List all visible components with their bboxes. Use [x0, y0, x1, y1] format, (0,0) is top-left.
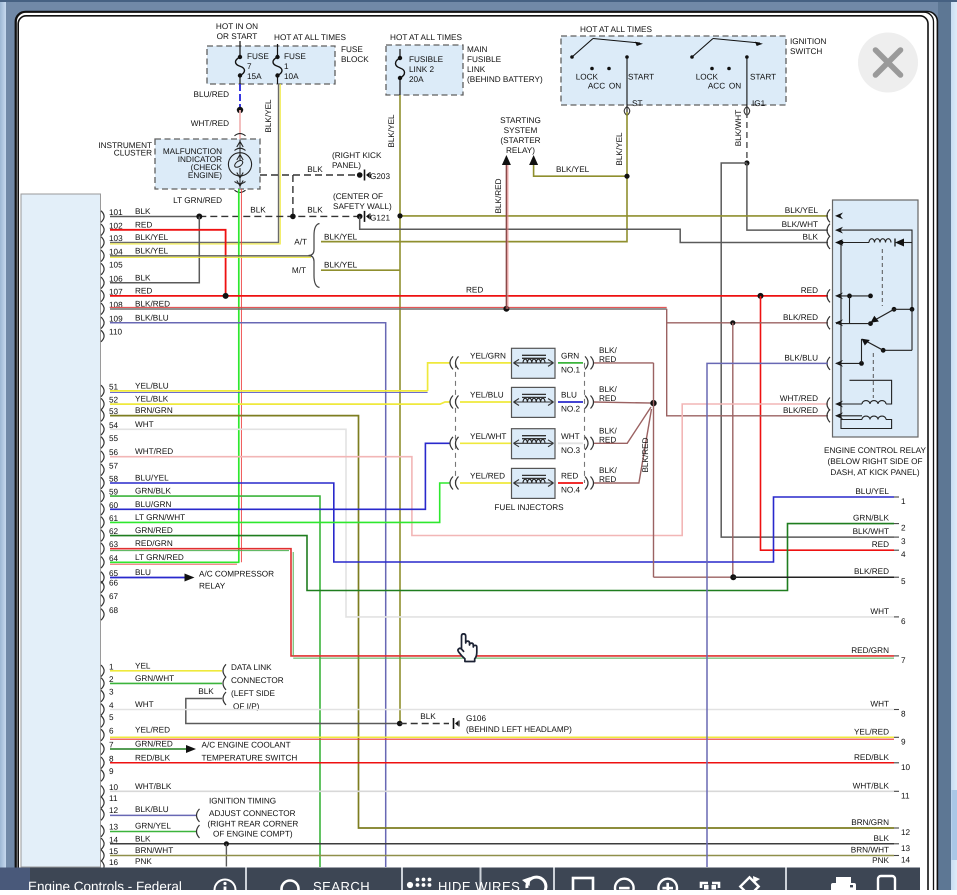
- svg-text:7: 7: [109, 741, 114, 750]
- relay coil diode: [895, 239, 904, 247]
- fuel injector connector dashes: [455, 363, 457, 483]
- wire BLK/RED injector NO.4: [594, 409, 652, 483]
- injector NO.4: [450, 477, 453, 490]
- pin 53 BRN/GRN: [101, 410, 104, 422]
- svg-text:BLK/BLU: BLK/BLU: [135, 805, 169, 814]
- svg-text:BLK/: BLK/: [599, 426, 617, 435]
- svg-text:START: START: [628, 73, 654, 82]
- svg-text:7: 7: [901, 656, 906, 665]
- wire BLK G121 to relay BLK pin: [360, 216, 828, 242]
- wire BLK/RED down to splice 577: [732, 323, 734, 577]
- injector NO.3: [450, 437, 453, 450]
- wire BLK/RED to relay lower pin: [667, 309, 828, 416]
- relay switch upper: [892, 307, 897, 312]
- svg-text:(RIGHT KICK: (RIGHT KICK: [332, 151, 382, 160]
- wire 62 GRN/RED to right pin 2: [110, 524, 894, 591]
- svg-text:67: 67: [109, 592, 119, 601]
- wire 102 RED down to RED bus: [110, 230, 226, 296]
- wire LT GRN/RED (malfunction indicator to pin 64): [238, 189, 240, 562]
- svg-text:RED: RED: [561, 472, 578, 481]
- wire 52 YEL/BLK to injector NO.2: [110, 402, 450, 404]
- pin 57 (nc): [101, 464, 104, 476]
- wire 6 YEL/RED to right pin 9: [110, 736, 894, 738]
- wire BLK/RED injector NO.2: [594, 402, 654, 403]
- svg-text:GRN/BLK: GRN/BLK: [135, 487, 171, 496]
- pin 7 GRN/RED: [101, 743, 104, 755]
- relay pin RED: [827, 289, 830, 302]
- wire 12 BLK/BLU to ignition timing connector: [110, 814, 196, 816]
- pin 105 (nc): [101, 263, 104, 275]
- svg-text:GRN/BLK: GRN/BLK: [853, 514, 889, 523]
- svg-text:FUSIBLE: FUSIBLE: [409, 55, 444, 64]
- svg-text:BLK/RED: BLK/RED: [854, 567, 889, 576]
- svg-text:WHT/RED: WHT/RED: [135, 447, 173, 456]
- svg-text:START: START: [750, 73, 776, 82]
- pin 59 GRN/BLK: [101, 490, 104, 502]
- svg-text:WHT: WHT: [135, 700, 154, 709]
- terminal ST: [626, 57, 628, 112]
- bottom toolbar: [30, 868, 920, 891]
- wire 51 YEL/BLU to injector NO.1: [110, 390, 428, 392]
- svg-text:13: 13: [901, 844, 911, 853]
- svg-text:RED/BLK: RED/BLK: [135, 753, 171, 762]
- wire 8 RED/BLK to right pin 10: [110, 762, 894, 764]
- relay left bus: [841, 243, 862, 420]
- svg-text:16: 16: [109, 858, 119, 867]
- fuse F1 10A: [277, 44, 279, 57]
- svg-text:LT GRN/RED: LT GRN/RED: [173, 196, 222, 205]
- svg-text:58: 58: [109, 475, 119, 484]
- toolbar separator: [401, 868, 403, 891]
- svg-text:BLK: BLK: [135, 273, 151, 282]
- svg-text:BLK/: BLK/: [599, 346, 617, 355]
- svg-text:BLK: BLK: [250, 206, 266, 215]
- relay pin BLK/WHT: [827, 224, 830, 237]
- relay RED row: [836, 295, 871, 297]
- svg-text:9: 9: [901, 737, 906, 746]
- svg-text:HIDE WIRES: HIDE WIRES: [438, 879, 520, 890]
- wire 54 WHT to right pin 6: [110, 429, 894, 617]
- pin 52 YEL/BLK: [101, 398, 104, 410]
- svg-text:FUEL INJECTORS: FUEL INJECTORS: [494, 503, 564, 512]
- splice dot ST branch: [624, 174, 629, 179]
- close button: [858, 33, 918, 93]
- wire BLK/YEL branch to relay: [400, 215, 828, 217]
- pin 60 BLU/GRN: [101, 504, 104, 516]
- svg-text:(CENTER OF: (CENTER OF: [333, 192, 383, 201]
- wire 63 RED/GRN to right pin 7: [110, 549, 894, 656]
- wire BLK/RED to right pin 5: [654, 576, 733, 578]
- svg-text:M/T: M/T: [292, 266, 306, 275]
- svg-text:WHT/RED: WHT/RED: [191, 119, 229, 128]
- pin 67 (nc): [101, 595, 104, 607]
- svg-text:G203: G203: [370, 172, 390, 181]
- svg-text:66: 66: [109, 579, 119, 588]
- svg-text:5: 5: [901, 577, 906, 586]
- pin 9 (nc): [101, 770, 104, 782]
- svg-text:6: 6: [901, 617, 906, 626]
- toolbar zoom-in icon: [658, 879, 677, 895]
- svg-text:BLK/YEL: BLK/YEL: [785, 206, 819, 215]
- wire 59 GRN/BLK down page: [110, 496, 320, 867]
- svg-text:BLK/WHT: BLK/WHT: [782, 220, 818, 229]
- pin 13 GRN/YEL: [101, 825, 104, 837]
- svg-text:20A: 20A: [409, 75, 424, 84]
- pin 64 LT GRN/RED: [101, 557, 104, 569]
- svg-text:(STARTER: (STARTER: [500, 136, 540, 145]
- svg-text:WHT/BLK: WHT/BLK: [135, 782, 172, 791]
- svg-text:60: 60: [109, 501, 119, 510]
- wire BLK/YEL branch to starter: [534, 165, 627, 176]
- relay pin BLK/RED: [827, 409, 830, 422]
- wire 2 GRN/WHT to data link connector: [110, 682, 222, 684]
- svg-text:YEL/RED: YEL/RED: [854, 727, 889, 736]
- svg-text:IGNITION TIMING: IGNITION TIMING: [209, 797, 276, 806]
- wire BLK/RED up to starter arrow: [505, 165, 507, 309]
- wire 60 BLU/GRN to injector NO.3: [110, 443, 450, 509]
- svg-text:1: 1: [901, 497, 906, 506]
- A/T - M/T brace: [309, 224, 320, 288]
- wire BLK/YEL fusible link trunk: [399, 95, 401, 724]
- svg-text:HOT AT ALL TIMES: HOT AT ALL TIMES: [390, 33, 462, 42]
- pin 66 (nc): [101, 581, 104, 593]
- svg-text:BLK/BLU: BLK/BLU: [135, 313, 169, 322]
- svg-text:RED: RED: [135, 220, 152, 229]
- toolbar print icon: [831, 883, 856, 894]
- svg-text:RED: RED: [135, 286, 152, 295]
- svg-text:103: 103: [109, 234, 123, 243]
- wire BLK from data link connector to G106: [223, 692, 226, 705]
- svg-text:RELAY: RELAY: [199, 582, 226, 591]
- svg-text:BLK: BLK: [198, 687, 214, 696]
- pin 101 BLK: [101, 211, 104, 223]
- pin 1 YEL: [101, 665, 104, 677]
- svg-text:STARTING: STARTING: [500, 116, 541, 125]
- svg-text:109: 109: [109, 314, 123, 323]
- svg-text:BLU/YEL: BLU/YEL: [855, 487, 889, 496]
- wire BLU/RED (fuse7 to splice): [239, 84, 241, 110]
- toolbar stop icon: [573, 878, 593, 895]
- svg-text:15: 15: [109, 847, 119, 856]
- svg-text:RED/BLK: RED/BLK: [854, 753, 890, 762]
- pin 110 (nc): [101, 330, 104, 342]
- svg-text:RED/GRN: RED/GRN: [135, 539, 173, 548]
- wire 4 WHT to right pin 8: [110, 709, 894, 711]
- svg-text:14: 14: [109, 835, 119, 844]
- svg-text:56: 56: [109, 448, 119, 457]
- wire 13 GRN/YEL to ignition timing connector: [110, 831, 196, 833]
- pin 54 WHT: [101, 424, 104, 436]
- svg-text:BRN/GRN: BRN/GRN: [135, 406, 173, 415]
- svg-text:WHT: WHT: [870, 700, 889, 709]
- svg-text:(BELOW RIGHT SIDE OF: (BELOW RIGHT SIDE OF: [828, 457, 923, 466]
- pin 107 RED: [101, 290, 104, 302]
- svg-text:OF ENGINE COMPT): OF ENGINE COMPT): [213, 830, 293, 839]
- svg-text:BLK: BLK: [803, 233, 819, 242]
- injector NO.2: [450, 396, 453, 409]
- svg-text:RELAY): RELAY): [506, 146, 535, 155]
- svg-text:14: 14: [901, 856, 911, 865]
- svg-text:3: 3: [901, 537, 906, 546]
- splice dot IG1: [744, 160, 749, 165]
- svg-text:10: 10: [901, 763, 911, 772]
- relay coil 1: [841, 242, 869, 244]
- pin 55 (nc): [101, 437, 104, 449]
- svg-text:YEL/BLU: YEL/BLU: [470, 391, 504, 400]
- toolbar zoom-out icon: [615, 879, 634, 895]
- svg-text:BLU/RED: BLU/RED: [194, 90, 230, 99]
- svg-text:12: 12: [901, 828, 911, 837]
- svg-text:10A: 10A: [284, 72, 299, 81]
- svg-text:(BEHIND BATTERY): (BEHIND BATTERY): [467, 75, 543, 84]
- svg-text:BRN/GRN: BRN/GRN: [851, 818, 889, 827]
- svg-text:ENGINE): ENGINE): [188, 171, 222, 180]
- svg-text:LOCK: LOCK: [696, 73, 719, 82]
- svg-text:NO.1: NO.1: [561, 365, 581, 374]
- svg-text:ACC: ACC: [708, 82, 725, 91]
- pin 106 BLK: [101, 277, 104, 289]
- relay mechanical links (dashed): [881, 249, 883, 306]
- svg-text:108: 108: [109, 300, 123, 309]
- svg-text:59: 59: [109, 488, 119, 497]
- pin 5 (nc): [101, 716, 104, 728]
- svg-text:BRN/WHT: BRN/WHT: [135, 846, 173, 855]
- svg-text:54: 54: [109, 421, 119, 430]
- svg-text:BLK/YEL: BLK/YEL: [556, 165, 590, 174]
- lamp (check engine bulb): [235, 134, 246, 193]
- svg-text:4: 4: [109, 701, 114, 710]
- pin 51 YEL/BLU: [101, 385, 104, 397]
- svg-text:BLK/YEL: BLK/YEL: [615, 132, 624, 166]
- pin 62 GRN/RED: [101, 530, 104, 542]
- ignition switch box: [561, 36, 786, 105]
- fusible link 2 element: [399, 49, 401, 58]
- svg-text:HOT AT ALL TIMES: HOT AT ALL TIMES: [274, 33, 346, 42]
- svg-text:FUSE: FUSE: [284, 52, 306, 61]
- wire BLK/WHT IG1 dashed: [746, 112, 748, 163]
- svg-text:2: 2: [109, 675, 114, 684]
- svg-text:BLK/RED: BLK/RED: [641, 437, 650, 472]
- wire 10 WHT/BLK to right pin 11: [110, 790, 894, 792]
- svg-text:BLU: BLU: [135, 568, 151, 577]
- svg-text:ON: ON: [729, 82, 741, 91]
- relay pin BLK/YEL: [827, 209, 830, 222]
- svg-text:106: 106: [109, 274, 123, 283]
- wire BLK/RED trunk to splice 577: [653, 363, 655, 577]
- svg-text:DASH, AT KICK PANEL): DASH, AT KICK PANEL): [830, 468, 919, 477]
- wire RED to right pin 4: [761, 296, 895, 550]
- svg-text:BLK/WHT: BLK/WHT: [734, 110, 743, 146]
- relay coil 2b: [836, 415, 862, 417]
- svg-text:ON: ON: [609, 82, 621, 91]
- pin 58 BLU/YEL: [101, 477, 104, 489]
- wire BLK/YEL from ST to A/T brace: [321, 112, 627, 242]
- svg-text:RED: RED: [801, 286, 818, 295]
- svg-text:LOCK: LOCK: [576, 73, 599, 82]
- svg-text:101: 101: [109, 208, 123, 217]
- wire BLK/YEL from fuse 1 to pin 103: [110, 84, 279, 242]
- svg-text:Engine Controls - Federal: Engine Controls - Federal: [28, 879, 182, 890]
- svg-text:G106: G106: [466, 714, 486, 723]
- svg-text:YEL/RED: YEL/RED: [135, 726, 170, 735]
- svg-text:YEL/RED: YEL/RED: [470, 472, 505, 481]
- svg-text:BLK: BLK: [135, 207, 151, 216]
- pin 10 WHT/BLK: [101, 786, 104, 798]
- toolbar separator: [785, 868, 787, 891]
- svg-text:(RIGHT REAR CORNER: (RIGHT REAR CORNER: [208, 819, 299, 828]
- svg-text:BLK: BLK: [307, 165, 323, 174]
- svg-text:BLU: BLU: [561, 391, 577, 400]
- svg-text:GRN/YEL: GRN/YEL: [135, 822, 171, 831]
- svg-text:FUSE: FUSE: [247, 52, 269, 61]
- svg-text:SWITCH: SWITCH: [790, 47, 822, 56]
- svg-text:RED: RED: [466, 286, 483, 295]
- svg-text:PNK: PNK: [872, 856, 889, 865]
- wire BLK/WHT to ECT pin 3 (right col): [721, 163, 894, 537]
- svg-text:ACC: ACC: [588, 82, 605, 91]
- pin 11 (nc): [101, 797, 104, 809]
- pin 109 BLK/BLU: [101, 317, 104, 329]
- pin 8 RED/BLK: [101, 757, 104, 769]
- svg-text:WHT/BLK: WHT/BLK: [853, 781, 890, 790]
- wire BLK/RED injector NO.3: [594, 407, 651, 443]
- relay coil 2a: [836, 403, 862, 405]
- svg-text:55: 55: [109, 434, 119, 443]
- ground G106 dashed: [400, 723, 449, 725]
- pin 56 WHT/RED: [101, 451, 104, 463]
- fusible link 2 box: [386, 45, 463, 95]
- svg-text:5: 5: [109, 713, 114, 722]
- svg-text:BLK/RED: BLK/RED: [783, 406, 818, 415]
- pin 2 GRN/WHT: [101, 678, 104, 690]
- toolbar undo icon: [527, 877, 546, 895]
- pin 102 RED: [101, 224, 104, 236]
- arrow to starter relay (BLK/YEL): [529, 155, 538, 165]
- relay pin BLK/BLU: [827, 357, 830, 370]
- ignition switch contacts (IG1 side): [690, 55, 694, 59]
- svg-text:WHT: WHT: [135, 420, 154, 429]
- svg-text:1: 1: [284, 62, 289, 71]
- wire 101 BLK to splice: [110, 216, 199, 218]
- svg-text:SYSTEM: SYSTEM: [504, 126, 538, 135]
- svg-text:BLOCK: BLOCK: [341, 55, 369, 64]
- pin 61 LT GRN/WHT: [101, 517, 104, 529]
- wire 108 BLK/RED: [110, 308, 667, 310]
- relay BLK/BLU row internal: [836, 362, 862, 364]
- pin 14 BLK: [101, 838, 104, 850]
- pin 103 BLK/YEL: [101, 237, 104, 249]
- instrument cluster / malfunction indicator box: [155, 139, 260, 189]
- svg-text:LINK 2: LINK 2: [409, 65, 434, 74]
- ground G121 dashed BLK (pin 101 net): [199, 215, 359, 217]
- fuse block box: [207, 46, 335, 84]
- splice dot: [237, 107, 243, 113]
- wire 65 BLU to A/C compressor relay: [110, 577, 185, 579]
- wire 104 BLK/YEL to A/T-M/T brace: [110, 255, 311, 257]
- svg-text:PANEL): PANEL): [332, 161, 361, 170]
- pin 15 BRN/WHT: [101, 850, 104, 862]
- svg-text:BLK/BLU: BLK/BLU: [784, 353, 818, 362]
- svg-text:RED: RED: [872, 540, 889, 549]
- svg-text:DATA LINK: DATA LINK: [231, 663, 272, 672]
- relay internal bus right: [836, 230, 912, 309]
- pin 12 BLK/BLU: [101, 809, 104, 821]
- wire 15 BRN/WHT to right pin 14: [110, 855, 894, 857]
- ignition switch contacts (ST side): [570, 55, 574, 59]
- svg-text:57: 57: [109, 461, 119, 470]
- wire 1 YEL to data link connector: [110, 670, 222, 672]
- svg-text:63: 63: [109, 540, 119, 549]
- svg-text:BLK/YEL: BLK/YEL: [387, 114, 396, 148]
- svg-text:GRN/RED: GRN/RED: [135, 526, 173, 535]
- wire BLK/RED injector NO.1: [594, 362, 654, 364]
- svg-text:BLK/RED: BLK/RED: [494, 178, 503, 213]
- toolbar flip icon: [740, 877, 758, 895]
- svg-text:YEL/GRN: YEL/GRN: [470, 351, 506, 360]
- svg-text:ADJUST CONNECTOR: ADJUST CONNECTOR: [209, 809, 296, 818]
- svg-text:BLK/WHT: BLK/WHT: [853, 527, 889, 536]
- svg-text:NO.3: NO.3: [561, 446, 581, 455]
- svg-text:BLK: BLK: [135, 834, 151, 843]
- wire BLK/BLU relay to bottom: [707, 363, 828, 867]
- svg-text:9: 9: [109, 767, 114, 776]
- toolbar hide-wires icon: [407, 878, 432, 889]
- svg-text:13: 13: [109, 823, 119, 832]
- svg-text:CONNECTOR: CONNECTOR: [231, 676, 284, 685]
- svg-text:IG1: IG1: [752, 99, 766, 108]
- svg-text:WHT: WHT: [870, 607, 889, 616]
- svg-text:YEL/BLU: YEL/BLU: [135, 381, 169, 390]
- svg-text:8: 8: [109, 754, 114, 763]
- pin 65 BLU: [101, 572, 104, 584]
- svg-text:110: 110: [109, 328, 122, 337]
- svg-text:CLUSTER: CLUSTER: [114, 149, 152, 158]
- svg-text:FUSE: FUSE: [341, 45, 363, 54]
- svg-text:(BEHIND LEFT HEADLAMP): (BEHIND LEFT HEADLAMP): [466, 725, 572, 734]
- svg-text:11: 11: [109, 794, 118, 803]
- svg-text:12: 12: [109, 806, 119, 815]
- toolbar fit icon: [701, 883, 719, 888]
- svg-text:BLK/YEL: BLK/YEL: [324, 233, 358, 242]
- pin 16 PNK: [101, 861, 104, 873]
- splice dot injectors: [650, 400, 656, 406]
- svg-text:4: 4: [901, 550, 906, 559]
- svg-text:YEL: YEL: [135, 661, 151, 670]
- wire BLK/WHT to relay pin: [747, 163, 828, 230]
- pin 68 (nc): [101, 609, 104, 621]
- pin 63 RED/GRN: [101, 543, 104, 555]
- svg-text:WHT: WHT: [561, 432, 580, 441]
- relay switch lower: [911, 309, 913, 350]
- ground G203 dashed BLK: [260, 174, 360, 176]
- svg-text:LT GRN/RED: LT GRN/RED: [135, 553, 184, 562]
- svg-text:MAIN: MAIN: [467, 45, 488, 54]
- svg-text:ST: ST: [632, 99, 642, 108]
- pin 6 YEL/RED: [101, 729, 104, 741]
- wire 7 GRN/RED to A/C coolant temp switch: [110, 748, 186, 750]
- svg-text:A/T: A/T: [294, 238, 307, 247]
- fuse F7 15A: [239, 41, 241, 57]
- svg-text:NO.2: NO.2: [561, 405, 581, 414]
- relay BLK/RED row internal: [836, 323, 871, 325]
- arrow to starter relay (BLK/RED): [502, 155, 511, 165]
- svg-text:OR START: OR START: [217, 32, 258, 41]
- toolbar mobile icon: [878, 876, 895, 895]
- svg-text:GRN/RED: GRN/RED: [135, 740, 173, 749]
- svg-text:BLU/YEL: BLU/YEL: [135, 474, 169, 483]
- svg-text:A/C COMPRESSOR: A/C COMPRESSOR: [199, 570, 274, 579]
- pin 104 BLK/YEL: [101, 250, 104, 261]
